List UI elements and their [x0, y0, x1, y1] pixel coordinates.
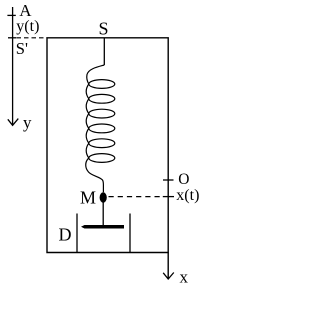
enclosure box — [47, 38, 168, 253]
x-axis extension below box — [163, 253, 174, 280]
svg-text:M: M — [80, 187, 96, 207]
damper cylinder left wall — [76, 214, 78, 253]
svg-text:S: S — [99, 18, 109, 38]
damper rod — [102, 202, 104, 225]
dashed line from mass to x-axis — [109, 196, 164, 198]
y-axis — [8, 7, 18, 125]
damper cylinder right wall — [129, 214, 131, 253]
mass M — [100, 192, 107, 202]
tick O — [163, 179, 174, 181]
svg-text:x: x — [180, 268, 189, 287]
svg-text:y(t): y(t) — [16, 18, 39, 35]
svg-text:S': S' — [16, 39, 28, 58]
svg-text:x(t): x(t) — [176, 187, 199, 204]
spring upper stem — [103, 38, 105, 65]
svg-text:D: D — [59, 225, 72, 245]
tick S' — [8, 37, 16, 39]
tick x(t) — [163, 196, 174, 198]
dashed line from y-axis to box — [17, 37, 48, 39]
svg-text:y: y — [23, 113, 32, 132]
damper piston plate — [81, 225, 124, 229]
tick A — [7, 14, 15, 16]
spring coil — [86, 65, 115, 192]
svg-text:O: O — [178, 171, 189, 188]
